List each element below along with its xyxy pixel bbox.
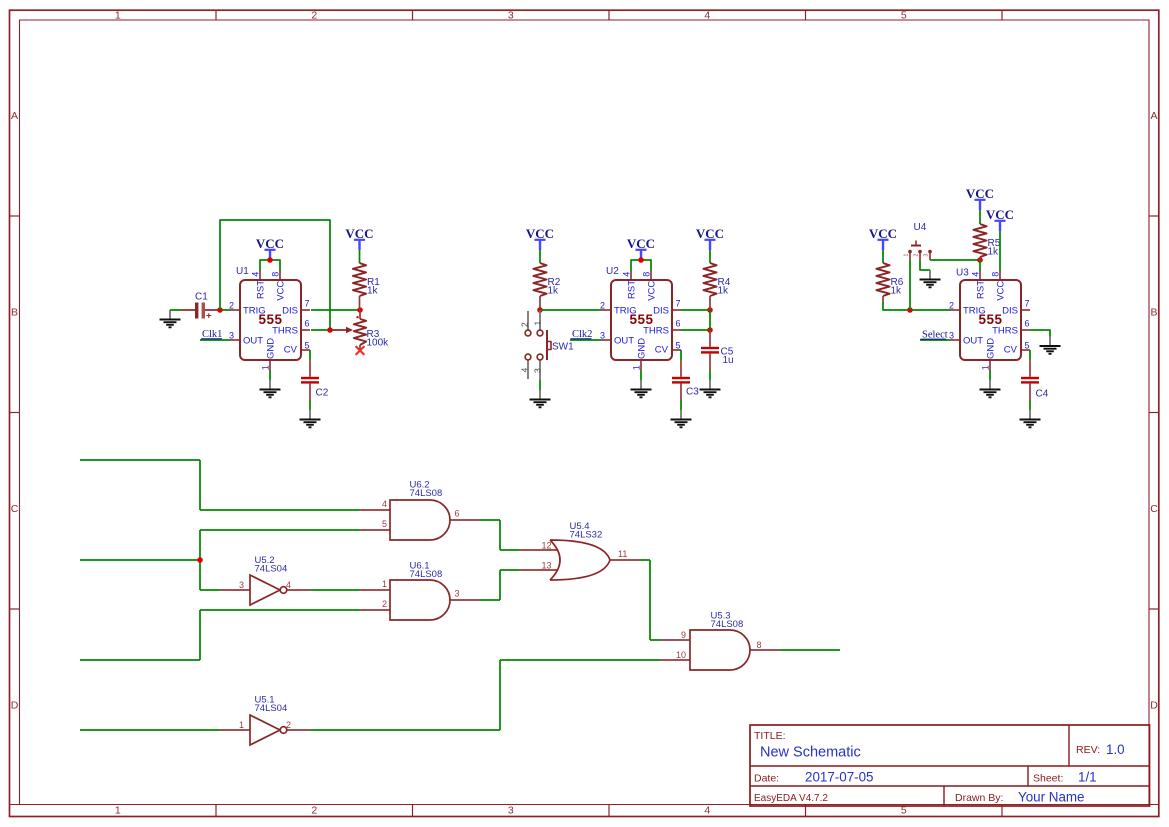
svg-text:8: 8: [991, 272, 1001, 277]
svg-text:DIS: DIS: [282, 305, 298, 316]
svg-text:C3: C3: [686, 387, 699, 398]
svg-text:U4: U4: [914, 222, 927, 233]
svg-text:TITLE:: TITLE:: [754, 730, 786, 742]
svg-text:THRS: THRS: [992, 325, 1018, 336]
svg-text:C: C: [11, 503, 19, 515]
svg-text:2: 2: [520, 322, 530, 327]
svg-text:REV:: REV:: [1076, 744, 1100, 756]
svg-text:U2: U2: [606, 266, 619, 277]
svg-text:6: 6: [305, 319, 310, 329]
svg-text:TRIG: TRIG: [243, 305, 266, 316]
svg-text:8: 8: [271, 272, 281, 277]
svg-text:New Schematic: New Schematic: [760, 745, 861, 761]
svg-text:TRIG: TRIG: [614, 305, 637, 316]
svg-text:2: 2: [311, 10, 317, 22]
svg-text:Drawn By:: Drawn By:: [955, 792, 1003, 804]
svg-text:B: B: [1150, 306, 1157, 318]
svg-text:VCC: VCC: [696, 226, 724, 241]
svg-text:3: 3: [508, 805, 514, 817]
svg-text:SW1: SW1: [552, 342, 574, 353]
svg-text:U3: U3: [956, 268, 969, 279]
svg-text:VCC: VCC: [966, 186, 994, 201]
svg-text:10: 10: [676, 650, 686, 660]
svg-text:5: 5: [1025, 341, 1030, 351]
svg-text:1: 1: [115, 805, 121, 817]
svg-text:1k: 1k: [548, 286, 560, 297]
svg-text:3: 3: [455, 589, 460, 599]
svg-text:B: B: [11, 306, 18, 318]
svg-text:1k: 1k: [891, 286, 903, 297]
svg-text:2: 2: [600, 301, 605, 311]
svg-text:74LS32: 74LS32: [570, 530, 603, 541]
svg-text:THRS: THRS: [272, 325, 298, 336]
svg-text:4: 4: [382, 499, 387, 509]
svg-text:8: 8: [642, 272, 652, 277]
svg-text:5: 5: [901, 10, 907, 22]
svg-text:5: 5: [305, 341, 310, 351]
svg-text:1: 1: [980, 365, 990, 370]
svg-text:100k: 100k: [367, 338, 390, 349]
svg-text:1: 1: [382, 579, 387, 589]
svg-text:4: 4: [704, 10, 710, 22]
svg-text:OUT: OUT: [243, 336, 263, 347]
svg-text:2: 2: [949, 301, 954, 311]
svg-text:12: 12: [541, 541, 551, 551]
svg-text:3: 3: [508, 10, 514, 22]
svg-text:3: 3: [924, 254, 930, 257]
svg-text:1u: 1u: [723, 355, 734, 366]
svg-text:2: 2: [914, 254, 920, 257]
svg-text:6: 6: [455, 509, 460, 519]
svg-text:2: 2: [382, 599, 387, 609]
svg-text:A: A: [1150, 110, 1157, 122]
svg-text:4: 4: [704, 805, 710, 817]
svg-text:3: 3: [229, 331, 234, 341]
svg-text:D: D: [11, 699, 19, 711]
svg-text:D: D: [1150, 699, 1158, 711]
svg-text:1: 1: [904, 254, 910, 257]
svg-text:13: 13: [541, 561, 551, 571]
svg-text:A: A: [11, 110, 18, 122]
svg-text:7: 7: [1025, 299, 1030, 309]
svg-text:74LS08: 74LS08: [711, 619, 744, 630]
svg-text:7: 7: [676, 299, 681, 309]
svg-text:RST: RST: [256, 280, 267, 299]
svg-text:2: 2: [311, 805, 317, 817]
svg-text:Sheet:: Sheet:: [1033, 773, 1063, 785]
svg-text:3: 3: [239, 580, 244, 590]
svg-text:U1: U1: [236, 266, 249, 277]
svg-text:6: 6: [676, 319, 681, 329]
svg-text:4: 4: [251, 272, 261, 277]
svg-text:DIS: DIS: [653, 305, 669, 316]
svg-text:74LS04: 74LS04: [255, 564, 288, 575]
svg-text:VCC: VCC: [986, 207, 1014, 222]
svg-text:THRS: THRS: [643, 325, 669, 336]
svg-text:C1: C1: [195, 292, 208, 303]
svg-text:7: 7: [305, 299, 310, 309]
svg-text:11: 11: [618, 549, 627, 559]
svg-text:5: 5: [676, 341, 681, 351]
svg-text:4: 4: [971, 272, 981, 277]
svg-text:C: C: [1150, 503, 1158, 515]
svg-text:CV: CV: [1004, 344, 1018, 355]
svg-text:2: 2: [229, 301, 234, 311]
svg-text:VCC: VCC: [276, 281, 287, 301]
svg-text:C2: C2: [316, 388, 329, 399]
svg-text:CV: CV: [655, 344, 669, 355]
svg-text:VCC: VCC: [996, 281, 1007, 301]
svg-text:4: 4: [286, 580, 291, 590]
svg-text:74LS04: 74LS04: [255, 703, 288, 714]
svg-text:EasyEDA V4.7.2: EasyEDA V4.7.2: [754, 793, 828, 804]
svg-text:1/1: 1/1: [1078, 770, 1097, 785]
svg-text:VCC: VCC: [345, 226, 373, 241]
svg-text:DIS: DIS: [1002, 305, 1018, 316]
svg-text:1: 1: [533, 321, 543, 326]
svg-text:4: 4: [520, 368, 530, 373]
svg-text:VCC: VCC: [627, 236, 655, 251]
svg-text:3: 3: [949, 331, 954, 341]
svg-text:C4: C4: [1036, 389, 1049, 400]
svg-text:8: 8: [757, 640, 762, 650]
svg-text:OUT: OUT: [614, 336, 634, 347]
svg-text:2017-07-05: 2017-07-05: [805, 770, 874, 785]
svg-text:2: 2: [286, 720, 291, 730]
svg-text:1k: 1k: [718, 286, 730, 297]
svg-text:74LS08: 74LS08: [410, 569, 443, 580]
svg-text:1k: 1k: [988, 247, 1000, 258]
svg-text:RST: RST: [627, 280, 638, 299]
svg-text:Your Name: Your Name: [1018, 790, 1085, 805]
svg-text:3: 3: [533, 368, 543, 373]
svg-text:5: 5: [382, 519, 387, 529]
svg-text:1: 1: [260, 365, 270, 370]
svg-text:GND: GND: [266, 338, 277, 359]
svg-text:CV: CV: [284, 344, 298, 355]
svg-text:9: 9: [681, 630, 686, 640]
svg-text:VCC: VCC: [869, 226, 897, 241]
svg-text:74LS08: 74LS08: [410, 488, 443, 499]
svg-text:1k: 1k: [367, 286, 379, 297]
svg-text:+: +: [206, 311, 212, 322]
svg-text:1: 1: [239, 720, 244, 730]
svg-text:GND: GND: [986, 338, 997, 359]
svg-text:3: 3: [600, 331, 605, 341]
svg-text:1.0: 1.0: [1106, 742, 1125, 757]
svg-text:TRIG: TRIG: [963, 305, 986, 316]
svg-text:4: 4: [622, 272, 632, 277]
svg-text:Date:: Date:: [754, 773, 779, 785]
svg-text:VCC: VCC: [256, 236, 284, 251]
svg-text:6: 6: [1025, 319, 1030, 329]
svg-text:VCC: VCC: [647, 281, 658, 301]
svg-text:1: 1: [631, 365, 641, 370]
svg-text:VCC: VCC: [526, 226, 554, 241]
svg-text:OUT: OUT: [963, 336, 983, 347]
svg-text:1: 1: [115, 10, 121, 22]
svg-text:GND: GND: [637, 338, 648, 359]
svg-text:RST: RST: [976, 280, 987, 299]
